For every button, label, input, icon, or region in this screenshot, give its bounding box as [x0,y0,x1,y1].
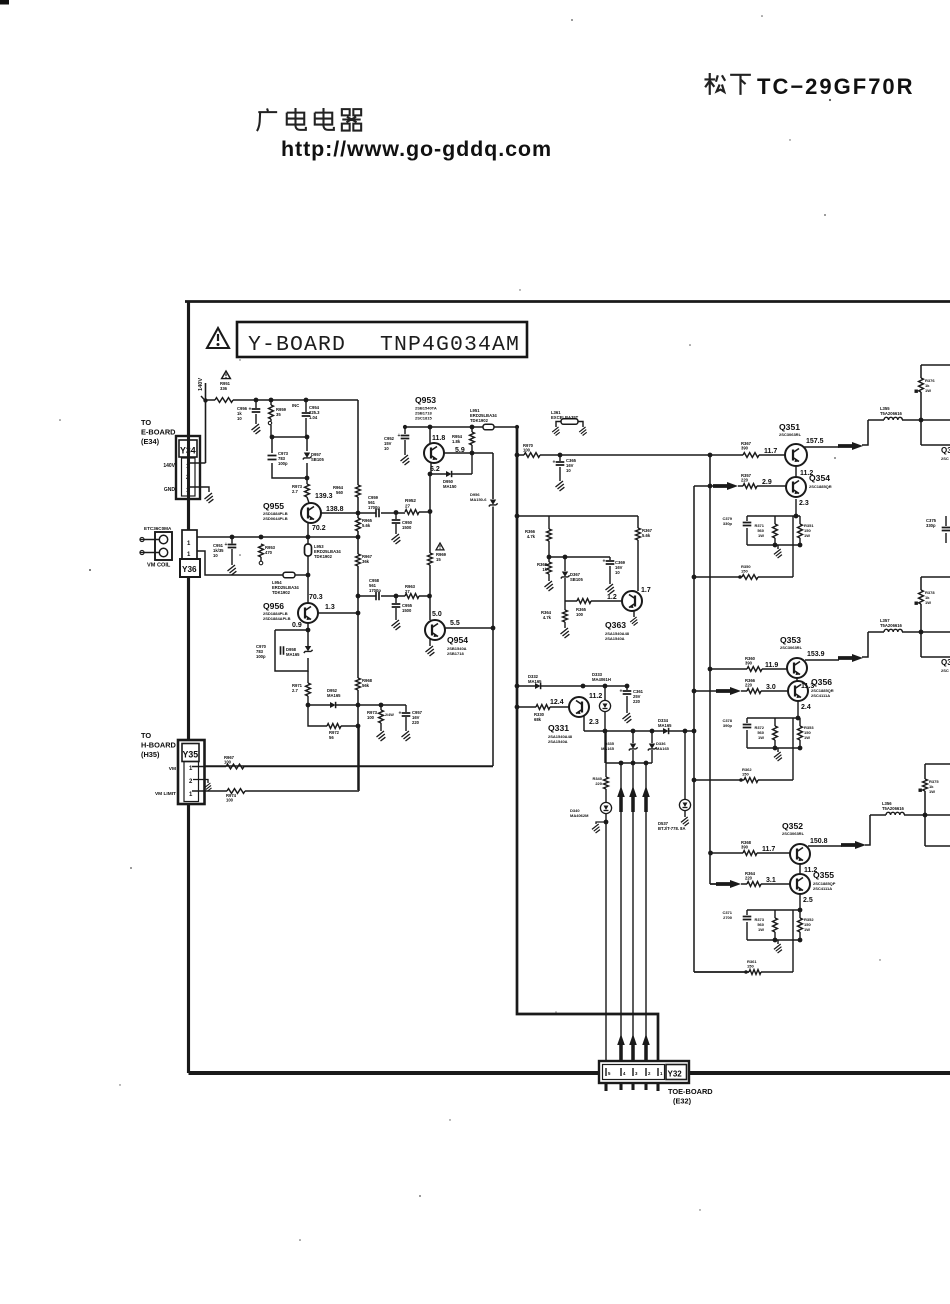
svg-text:1.2: 1.2 [607,594,617,601]
svg-text:2700: 2700 [723,915,733,920]
svg-text:TO: TO [141,731,151,740]
svg-text:150: 150 [741,568,748,573]
node y596 junction [394,594,399,599]
svg-text:100: 100 [226,798,234,803]
svg-text:Q955: Q955 [263,501,284,511]
value 2.3 Q331 [589,719,599,726]
capacitor C951 [213,537,236,565]
node y455 junctions [558,453,713,458]
wire y596 [358,595,429,597]
svg-text:2SA1540A: 2SA1540A [548,739,568,744]
capacitor C379 [722,516,751,526]
wire Q351-Q354 link [795,466,797,477]
wire Q363 base y601 [565,600,622,602]
box C973 sub-circuit [272,437,307,478]
svg-text:100: 100 [367,715,375,720]
svg-text:56k: 56k [362,683,370,688]
svg-text:MA165: MA165 [327,693,341,698]
svg-text:2SA1540A: 2SA1540A [605,636,625,641]
transistor Q354 [786,477,806,497]
label Q953 [415,395,437,420]
svg-text:2SC3063RL: 2SC3063RL [780,645,803,650]
svg-text:(E34): (E34) [141,437,160,446]
node D367 top [563,555,568,560]
label TO E-BOARD (E34) [141,418,176,446]
svg-text:1W: 1W [804,533,810,538]
svg-text:MA165: MA165 [601,746,615,751]
inductor L953 [305,537,312,575]
capacitor C375 clipped [926,516,950,543]
svg-text:220: 220 [412,720,420,725]
wire Q352 collector out [808,815,925,846]
zener D335 chain [629,731,638,763]
svg-text:140V: 140V [198,378,204,391]
svg-text:2/4W: 2/4W [385,713,394,717]
warning triangle title [207,328,229,348]
svg-text:+: + [399,711,402,717]
inductor L951 [483,424,494,430]
resistor R969 [428,553,433,565]
resistor R361 [744,959,761,974]
svg-text:(H35): (H35) [141,750,160,759]
wire Y32 pin2 x646 [645,763,647,1066]
svg-text:35: 35 [276,412,281,417]
diode D333 circled [599,686,610,763]
pin label GND [164,487,176,493]
resistor R973 [292,478,309,503]
svg-text:11.8: 11.8 [432,435,445,442]
ground D537 [681,817,689,826]
node box1 junction [919,418,924,423]
wire y726 [308,705,358,726]
wire Y36 pin1 to L954 [197,551,283,575]
resistor R963 [405,584,419,598]
connector Y34 [176,436,200,499]
resistor R351 [798,523,815,538]
svg-text:390: 390 [741,446,749,451]
label Q956 [263,601,291,621]
ground R364b [561,628,570,638]
wire Q352 base y853 [710,852,790,854]
resistor R376 [915,378,936,393]
svg-text:11.2: 11.2 [589,693,602,700]
svg-text:100: 100 [523,448,531,453]
svg-text:330p: 330p [723,521,733,526]
svg-text:70.2: 70.2 [312,525,326,532]
capacitor C952 [384,427,409,455]
capacitor C378 [722,718,751,728]
svg-text:139.3: 139.3 [315,493,333,500]
wire vertical B x694 [694,486,749,972]
resistor R368c [741,840,757,855]
value 0.9 [292,622,302,629]
wire Q954 emitter gnd [429,639,431,646]
svg-text:5.5: 5.5 [450,620,460,627]
node L954 junction [306,573,311,578]
label D333 [592,672,611,682]
wire vertical A x710 [710,455,716,884]
ground L361 left [552,427,560,436]
value 6.2 [430,466,440,473]
arrow Q356 base [716,687,741,695]
svg-text:150.8: 150.8 [810,838,828,845]
node Q953 emitter junction [470,451,475,456]
capacitor C369 [603,557,626,584]
svg-text:ETC36C0MA: ETC36C0MA [144,526,172,531]
node rail537 junctions [230,535,311,540]
capacitor C956 [237,400,260,424]
value 150.8 [810,838,828,845]
resistor R367 [741,441,759,457]
svg-text:336: 336 [220,386,228,391]
zener D367 [561,557,584,601]
wire x493 vertical [205,453,493,766]
wire Q355 emitter net [747,894,800,972]
svg-text:1W: 1W [925,388,931,393]
resistor R350 [738,564,758,579]
svg-text:1k: 1k [542,567,547,572]
resistor R352 [798,917,815,932]
label Q954 [447,635,468,656]
capacitor C955 [392,596,413,620]
svg-text:2SB1718: 2SB1718 [447,651,464,656]
ground C955 [392,620,401,630]
wire y557 [549,556,610,558]
svg-text:2SC4111A: 2SC4111A [813,886,832,891]
wire y513 [321,512,430,513]
svg-text:SB105: SB105 [311,457,324,462]
svg-text:MA165: MA165 [658,723,672,728]
pin label VM [169,766,176,772]
svg-text:138.8: 138.8 [326,506,344,513]
svg-text:2.5: 2.5 [803,897,813,904]
node D950 junction [428,472,433,477]
node y763 junctions [619,761,649,766]
svg-text:+: + [553,460,556,466]
ground C361 [623,713,632,723]
connector Y35 [178,740,205,804]
wire Q354 base y486 [694,485,786,487]
svg-text:Y36: Y36 [182,565,197,574]
diode D340 circled [600,802,611,813]
svg-text:2SD0644PLB: 2SD0644PLB [263,516,288,521]
svg-text:Q356: Q356 [811,677,832,687]
svg-text:4.7k: 4.7k [527,534,536,539]
connector Y32 [599,1061,689,1083]
resistor R365 [576,599,591,618]
svg-text:390p: 390p [723,723,733,728]
svg-text:390: 390 [741,845,749,850]
svg-text:TOE-BOARD: TOE-BOARD [668,1087,713,1096]
transistor Q356 [788,681,808,701]
arrow Q355 base [716,880,741,888]
ground Y35 pin2 [204,783,211,791]
resistor R373 [754,917,777,932]
node Q354 net junctions [773,514,803,548]
node box2 junction [919,630,924,635]
svg-text:390: 390 [745,661,753,666]
svg-text:Y32: Y32 [668,1070,683,1079]
label Q351 [779,422,802,437]
wire Y34 gnd elbow [190,487,209,492]
resistor R330 [534,705,550,723]
resistor R968 [356,678,373,690]
svg-text:1700p: 1700p [369,588,381,593]
label TOE-BOARD (E32) [668,1087,713,1106]
svg-text:27: 27 [405,589,410,594]
wire y455 [517,454,785,456]
svg-text:27: 27 [405,504,411,509]
wire D537 [684,731,686,817]
label D336 [656,741,670,751]
svg-text:10: 10 [566,468,571,473]
svg-text:MA4061H: MA4061H [592,677,611,682]
value 2.5 Q355 [803,897,813,904]
board frame left edge [187,302,190,1074]
resistor R967 [356,554,373,566]
warning triangle R969 [436,543,444,550]
svg-text:VM COIL: VM COIL [147,563,171,569]
capacitor C958 [369,578,381,600]
svg-text:Q953: Q953 [415,395,436,405]
transistor Q953 [424,427,444,463]
svg-text:Q363: Q363 [605,620,626,630]
wire Q355 base y884 [710,883,790,885]
pin label VM LIMIT [155,791,176,797]
svg-text:150: 150 [747,963,754,968]
inductor L361 [556,419,583,427]
svg-text:1.3: 1.3 [325,604,335,611]
svg-text:470: 470 [265,550,273,555]
wire y686 [517,685,627,687]
node y686 junctions [581,684,630,689]
value 11.2 link3 [804,867,817,874]
svg-text:+: + [225,542,228,548]
value 1.2 [607,594,617,601]
wire Y32 pin5 x606 [605,822,607,1066]
resistor R974 [226,789,245,803]
svg-text:15: 15 [436,557,441,562]
ground R973b [377,731,386,741]
label L953 [314,544,341,559]
label D340 [570,808,589,818]
wire y972 [694,971,793,973]
node box3 junction [923,813,928,818]
connector Y36 pin box [180,530,200,577]
svg-text:EXCELBA35T: EXCELBA35T [551,415,579,420]
ground Q954 [426,646,435,656]
ground Q355 net [774,944,782,953]
resistor R375 [919,779,940,794]
svg-text:11.7: 11.7 [762,846,775,853]
svg-text:+: + [620,689,623,695]
diode D334 [658,718,672,734]
svg-text:100: 100 [224,760,232,765]
resistor R973b [367,705,394,731]
board frame bottom edge [189,1071,950,1075]
wire Q352-Q355 link [799,864,801,874]
value 11.2 Q331 [589,693,602,700]
svg-text:153.9: 153.9 [807,651,825,658]
svg-text:220: 220 [745,876,753,881]
wire x430 chain [429,474,431,620]
node Q956 emitter junction [306,628,311,633]
svg-text:140V: 140V [163,463,175,469]
capacitor C361 [620,686,644,713]
resistor R340 [592,776,608,789]
arrow Q353 out [838,654,863,662]
transistor Q351 [785,444,807,466]
value 2.3 Q354 [799,500,809,507]
resistor R368b [537,557,551,581]
box2 right edge [921,577,950,657]
svg-text:TDK1902: TDK1902 [470,418,489,423]
label R951 [220,381,231,391]
svg-text:100p: 100p [278,461,288,466]
svg-text:Q35: Q35 [941,446,950,455]
svg-text:2.4: 2.4 [801,704,811,711]
svg-text:Y35: Y35 [183,750,199,760]
resistor R366 [525,516,551,557]
ground Q356 net [774,752,782,761]
svg-text:2SC1885QR: 2SC1885QR [809,484,832,489]
node trunk junctions [515,453,520,710]
resistor R366b [745,678,761,693]
wire rail y400 [203,398,358,402]
value 70.3 [309,594,323,601]
board frame top edge [185,300,950,303]
node box C973 corners [270,435,310,481]
svg-text:TDK1902: TDK1902 [272,590,291,595]
wire Q955 emitter [307,523,309,537]
svg-text:TC−29GF70R: TC−29GF70R [757,74,915,99]
resistor R357 [741,473,757,488]
value 1.3 [325,604,335,611]
svg-text:Q355: Q355 [813,870,834,880]
svg-text:2.3: 2.3 [799,500,809,507]
svg-text:2SC1815: 2SC1815 [415,415,432,420]
label Q354 [809,473,832,489]
arrow up x621 mid [617,786,625,812]
capacitor C371 [722,910,751,920]
svg-text:1500: 1500 [402,525,412,530]
node R366 junction [547,555,552,560]
arrow up x646 low [642,1034,650,1060]
ground D340 [592,824,600,833]
zener D958 [286,646,313,657]
resistor R353 [798,725,815,740]
resistor R965 [356,518,373,531]
arrow Q352 out [841,841,866,849]
value 153.9 [807,651,825,658]
wire trunk x517 [517,427,658,1063]
inductor L954 [283,572,308,578]
zener D957 [303,452,325,462]
svg-text:220: 220 [745,683,753,688]
svg-text:T5A206616: T5A206616 [880,411,903,416]
svg-text:2SC4111A: 2SC4111A [811,693,830,698]
wire Y32 pin3 x633 [632,763,634,1066]
label Q350 clipped [941,446,950,461]
label L951 [470,408,497,423]
box C970 sub-circuit [275,630,308,671]
svg-text:2.9: 2.9 [762,479,772,486]
header text 广电电器 [257,108,361,131]
diode D332 [528,674,542,689]
svg-text:1W: 1W [804,927,810,932]
wire Q353 base y669 [710,668,787,670]
svg-text:MA150: MA150 [443,484,457,489]
svg-text:4.7k: 4.7k [543,615,552,620]
capacitor C973 [268,451,289,466]
svg-text:220: 220 [741,478,749,483]
value 5.9 [455,447,465,454]
svg-text:MA4062M: MA4062M [570,813,589,818]
transistor Q355 [790,874,810,894]
diode D950 loop [430,453,472,477]
wire board edge trunk [187,302,190,1074]
label Q955 [263,501,288,521]
diode D952 [327,688,341,708]
resistor R378 [915,590,936,605]
wire rail y537 [197,536,358,538]
svg-text:157.5: 157.5 [806,438,824,445]
wire rail x358 [357,400,359,790]
ground C952 [401,455,410,465]
svg-text:R952: R952 [405,498,416,503]
wire Q953 base bottom [430,462,432,474]
svg-text:1W: 1W [758,533,764,538]
wire Y34 pin1 feed [190,383,206,463]
value 11.8 [432,435,445,442]
wire y763 [606,762,652,764]
capacitor C954 [292,400,320,437]
resistor R951 [215,398,233,403]
ground Q354 net [774,549,782,558]
resistor R367b [636,528,653,540]
svg-text:H-BOARD: H-BOARD [141,741,177,750]
svg-text:Q351: Q351 [779,422,800,432]
svg-text:10: 10 [237,416,242,421]
ground C957 [402,731,411,741]
capacitor C959 [368,495,380,517]
label Q356 [811,677,834,698]
svg-text:330p: 330p [926,523,936,528]
resistor R972 [327,724,341,741]
resistor R362 [739,767,758,782]
svg-text:Q331: Q331 [548,723,569,733]
wire Q353-Q356 link [796,678,798,681]
wire Q351 collector out [804,420,921,447]
svg-text:E-BOARD: E-BOARD [141,428,176,437]
ground C369 [606,584,615,594]
ground L361 right [579,427,587,436]
label Q363 [605,620,630,641]
node Q355 net junctions [773,908,803,943]
svg-text:T5A206616: T5A206616 [880,623,903,628]
arrow up x621 low [617,1034,625,1060]
capacitor C950 [392,512,413,534]
label Q353 [780,635,803,650]
label D950 [443,479,457,489]
node rail400 junctions [254,398,309,403]
value 11.2 link1 [800,470,813,477]
wire Q956 emitter [307,623,309,630]
svg-text:MA150-6: MA150-6 [470,497,487,502]
ground C950 [392,534,401,544]
label Q355 [813,870,836,891]
zener D956 [470,492,498,507]
